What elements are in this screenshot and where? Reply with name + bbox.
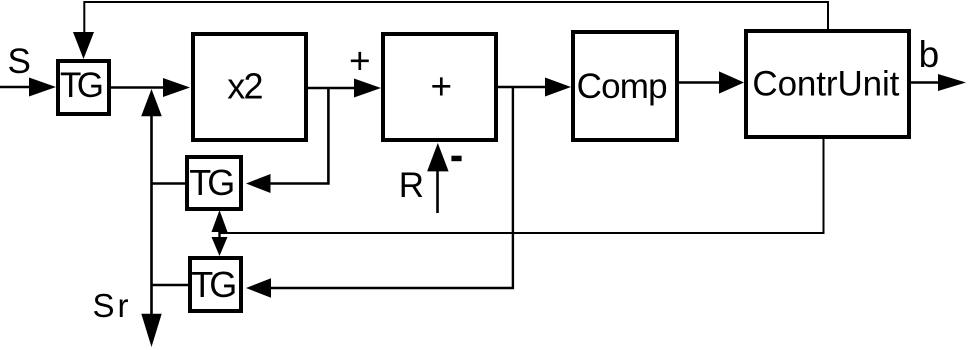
- svg-text:+: +: [349, 41, 371, 82]
- wire branch from adder output down to TG3: [269, 87, 513, 288]
- svg-text:ContrUnit: ContrUnit: [752, 64, 899, 103]
- wire Comp to ContrUnit: [679, 81, 722, 84]
- arrowhead into adder left: [354, 79, 381, 98]
- arrowhead into Comp left: [545, 78, 571, 97]
- svg-text:TG: TG: [60, 66, 104, 105]
- arrowhead down Sr output: [141, 314, 161, 347]
- arrowhead output b: [938, 74, 966, 91]
- svg-text:TG: TG: [189, 162, 235, 203]
- svg-text:R: R: [399, 166, 424, 205]
- block adder: [383, 34, 496, 140]
- block x2: [193, 34, 306, 140]
- svg-text:Sr: Sr: [93, 287, 129, 324]
- wire branch from x2 output down to TG2: [268, 88, 328, 184]
- svg-text:+: +: [431, 66, 453, 107]
- block ContrUnit: [746, 31, 909, 137]
- arrowhead into TG1 top: [73, 32, 94, 59]
- wire TG1 to x2: [111, 86, 166, 89]
- arrowhead down into TG3 top: [212, 237, 228, 256]
- wire double arrow shaft between TG2 and TG3: [218, 228, 220, 240]
- node minus sign: [451, 156, 461, 162]
- arrowhead into TG1 left: [29, 78, 56, 97]
- svg-text:S: S: [8, 42, 31, 81]
- svg-text:b: b: [919, 34, 940, 75]
- svg-text:Comp: Comp: [577, 67, 668, 106]
- wire x2 output to adder: [308, 87, 358, 90]
- wire adder output to Comp: [498, 86, 548, 89]
- arrowhead into ContrUnit left: [719, 71, 744, 93]
- block TG3: [190, 258, 241, 311]
- wire ContrUnit output b: [911, 81, 941, 84]
- arrowhead up into TG2 bottom: [212, 210, 228, 232]
- wire S input: [0, 86, 32, 89]
- block Comp: [573, 32, 677, 140]
- svg-text:x2: x2: [227, 66, 263, 107]
- wire rail to TG3 left: [152, 284, 190, 287]
- wire top feedback from ContrUnit to TG1: [84, 2, 828, 34]
- arrowhead into adder bottom: [427, 143, 449, 171]
- svg-text:TG: TG: [191, 264, 237, 305]
- wire R input vertical: [436, 168, 439, 213]
- wire Sr rail vertical: [150, 114, 153, 316]
- arrowhead up into main wire: [141, 89, 162, 116]
- wire rail to TG2 left: [152, 182, 187, 185]
- arrowhead into TG2 right: [246, 174, 271, 193]
- block TG2: [187, 157, 241, 209]
- block TG1: [58, 61, 109, 114]
- arrowhead into TG3 right: [246, 278, 271, 297]
- arrowhead into x2 left: [163, 78, 190, 97]
- wire ContrUnit bottom feedback to TG junction: [220, 139, 824, 233]
